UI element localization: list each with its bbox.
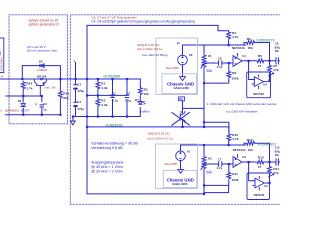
svg-text:C10: C10 (275, 146, 280, 150)
svg-text:50k: 50k (206, 170, 212, 174)
svg-text:R13: R13 (258, 155, 264, 159)
wire bias return lower (204, 164, 229, 193)
resistor R4 (227, 31, 231, 42)
lower channel (87, 127, 280, 194)
svg-text:Verstärkung 9.8 dB: Verstärkung 9.8 dB (91, 146, 123, 150)
cross-out X over Q (172, 112, 190, 125)
capacitor C9 (40, 105, 44, 107)
potentiometer X1 (201, 54, 206, 70)
capacitor C10 out (276, 158, 278, 165)
wire pot X2 bottom (203, 171, 205, 194)
svg-text:NE5534A: NE5534A (232, 46, 246, 50)
transistor Q7 (34, 79, 46, 96)
svg-text:V1: V1 (187, 150, 191, 154)
resistor R7 (268, 64, 272, 74)
svg-text:SMQJ3 0.25 1K): SMQJ3 0.25 1K) (148, 132, 170, 136)
op-amp U2 (252, 75, 267, 90)
svg-text:47: 47 (258, 64, 262, 68)
svg-text:R11: R11 (232, 172, 238, 176)
wire node e vertical C3 C4 (75, 63, 77, 117)
wire bias return y83.1 (204, 63, 229, 83)
svg-text:Rser=680: Rser=680 (166, 66, 179, 70)
resistor R10 (227, 133, 231, 142)
wire Q7 collector (43, 65, 45, 67)
svg-text:680: 680 (63, 96, 69, 100)
wire x1 low jog (204, 122, 229, 133)
chassis gnd box lower (156, 144, 198, 189)
op-amp U4 box (247, 173, 270, 200)
svg-text:max. 1W: max. 1W (44, 86, 55, 90)
subckt border box1 power supply (9, 15, 68, 124)
resistor R14 (268, 166, 272, 176)
svg-text:100k: 100k (232, 77, 239, 81)
svg-text:80 mA Laststrom max.: 80 mA Laststrom max. (27, 49, 58, 53)
svg-text:C4, C8 auf 820µF geändert (Fre: C4, C8 auf 820µF geändert (Frequenzgang … (91, 19, 195, 23)
wire supply rail top (1, 78, 141, 80)
svg-text:C6: C6 (218, 57, 222, 61)
svg-text:R5: R5 (247, 37, 251, 41)
svg-text:15k: 15k (248, 46, 254, 50)
junction dots top (21, 44, 270, 128)
svg-text:U3: U3 (242, 155, 246, 159)
wire R1 R2 divider (97, 79, 99, 117)
wire Qx stub (182, 108, 184, 127)
svg-text:47k: 47k (273, 68, 279, 72)
svg-text:15.002865: 15.002865 (103, 75, 120, 79)
svg-text:R16: R16 (63, 91, 69, 95)
svg-text:C2: C2 (112, 92, 116, 96)
transistor crossed Q input (180, 111, 185, 123)
resistor R2 (96, 98, 100, 107)
svg-text:D6: D6 (18, 99, 22, 103)
svg-text:47k: 47k (273, 171, 279, 175)
svg-text:470µ: 470µ (77, 107, 84, 111)
potentiometer X2 (201, 156, 206, 171)
wire R5 fb (244, 43, 270, 46)
svg-text:R6: R6 (258, 54, 262, 58)
svg-text:dun 0 100m 0 0.1µ: dun 0 100m 0 0.1µ (148, 136, 173, 140)
op-amp U1 (233, 53, 242, 67)
wire U3 to U4 (249, 162, 255, 181)
svg-text:2.7k: 2.7k (26, 87, 32, 91)
svg-text:BG: BG (275, 49, 279, 53)
svg-text:Q7: Q7 (40, 77, 44, 81)
svg-text:VE: VE (189, 53, 193, 57)
wire R12 fb (244, 143, 270, 145)
IN net flag (179, 97, 185, 101)
wire pot X2 top (203, 145, 205, 156)
capacitor C3 (73, 85, 77, 89)
subckt border box2 amplifier (70, 15, 281, 205)
chassis gnd inner box top (162, 74, 197, 94)
svg-text:470µ: 470µ (77, 89, 84, 93)
svg-text:1N4004: 1N4004 (37, 68, 48, 72)
svg-text:SABA 9080: SABA 9080 (172, 182, 188, 186)
resistor R5 (246, 41, 256, 45)
gnd flag rail (71, 121, 76, 125)
resistor R13 (256, 160, 264, 164)
svg-text:U2: U2 (263, 83, 267, 87)
svg-text:0.1µ: 0.1µ (125, 98, 131, 102)
resistor R12 (246, 141, 256, 145)
svg-text:Schalterverstärkung = 96 dB: Schalterverstärkung = 96 dB (91, 141, 138, 145)
voltage source V1 (176, 151, 186, 161)
capacitor C8 out (276, 57, 278, 64)
resistor R9 (227, 71, 231, 81)
wire C2 branch (112, 79, 114, 117)
wire gnd rail lower (87, 193, 204, 195)
op-amp U4 (252, 176, 267, 191)
svg-text:4.7k: 4.7k (232, 137, 238, 141)
chassis gnd box top (156, 38, 198, 95)
svg-text:4.9606291: 4.9606291 (106, 123, 123, 127)
svg-text:820µ: 820µ (275, 45, 280, 49)
svg-text:R9: R9 (232, 71, 236, 75)
wire supply top run to R4 (87, 25, 229, 30)
svg-text:R3: R3 (144, 87, 148, 91)
wire bias rail y126.9 (87, 117, 229, 127)
wire C7 input (205, 163, 233, 165)
wire V2 top (183, 45, 246, 77)
svg-text:C3: C3 (77, 83, 81, 87)
connector J1 left edge box (0, 38, 4, 73)
svg-text:4.7µ: 4.7µ (217, 166, 223, 170)
wire R4 bottom (228, 42, 230, 46)
resistor R6 (256, 59, 264, 63)
svg-text:R34: R34 (26, 82, 32, 86)
svg-text:1µ: 1µ (43, 108, 47, 112)
resistor R3 (138, 87, 142, 98)
svg-text:dun 0 100m 0 0.1µ: dun 0 100m 0 0.1µ (137, 47, 162, 51)
op-amp U2 box (247, 72, 271, 98)
svg-text:X1: X1 (208, 54, 212, 58)
gnd flag chassis lower (178, 169, 184, 173)
svg-text:820µ: 820µ (275, 149, 280, 153)
op-amp U3 (233, 154, 242, 168)
svg-text:U4: U4 (264, 184, 268, 188)
svg-text:C4: C4 (77, 100, 81, 104)
capacitor C7 (219, 161, 222, 167)
capacitor C6 (219, 60, 222, 66)
wire gnd stub (72, 117, 74, 122)
svg-text:Ausgangsimpedanz: Ausgangsimpedanz (91, 161, 124, 165)
svg-text:100k: 100k (232, 178, 239, 182)
resistor R1 (96, 81, 100, 90)
wire IN entry (183, 101, 204, 109)
wire R34 zener chain (22, 90, 24, 114)
LED D7 (138, 101, 145, 104)
wire U1 out (242, 60, 281, 62)
svg-text:D5: D5 (39, 59, 43, 63)
svg-text:6.8503927V: 6.8503927V (257, 38, 276, 42)
svg-text:@ 20 kHz = 2 Ohm: @ 20 kHz = 2 Ohm (91, 170, 123, 174)
wire U2 out diag (266, 73, 274, 82)
wire C5 branch (126, 79, 128, 117)
svg-text:U1: U1 (242, 54, 246, 58)
svg-text:1. GND darf nicht mit Chassis: 1. GND darf nicht mit Chassis GND verbun… (207, 102, 277, 106)
wire C6 input (205, 62, 233, 64)
wire U4 out diag (267, 174, 274, 183)
svg-text:Rser=680: Rser=680 (165, 162, 178, 166)
wire V1 top run (181, 145, 246, 169)
svg-text:Netz: Netz (0, 50, 2, 56)
svg-text:rot_GND KH-Verstärker: rot_GND KH-Verstärker (226, 110, 258, 114)
svg-text:C5: C5 (126, 92, 130, 96)
svg-text:.four 1kHz 10 50mg: .four 1kHz 10 50mg (141, 53, 168, 57)
chassis gnd inner box lower (163, 170, 197, 187)
svg-text:X2: X2 (208, 157, 212, 161)
capacitor C2 (110, 95, 114, 97)
svg-text:4.3k: 4.3k (101, 86, 107, 90)
svg-text:R12: R12 (247, 138, 253, 142)
svg-text:NE5532: NE5532 (253, 92, 264, 96)
voltage source V2 (178, 55, 188, 65)
wire emitter net y96 (6, 95, 42, 97)
wire R16 bottom (59, 100, 61, 114)
svg-text:0.1µ: 0.1µ (112, 99, 118, 103)
wire C9 branch (41, 96, 43, 115)
svg-text:@ 40 kHz = 1 Ohm: @ 40 kHz = 1 Ohm (91, 165, 123, 169)
svg-text:C9: C9 (43, 102, 47, 106)
resistor R11 (227, 172, 231, 182)
svg-text:BZX84B010: BZX84B010 (5, 108, 20, 112)
svg-text:D7: D7 (135, 98, 139, 102)
wire bottom rail box1 (6, 114, 61, 116)
wire R10 branch (228, 127, 230, 145)
resistor R34 (21, 81, 25, 91)
junction dots lower (203, 144, 271, 195)
svg-text:10k: 10k (144, 92, 150, 96)
svg-text:R1: R1 (101, 82, 105, 86)
wire R3 LED branch (139, 79, 141, 117)
svg-text:BZX79: BZX79 (21, 108, 29, 112)
svg-text:NE5534A: NE5534A (233, 148, 247, 152)
svg-text:C7: C7 (218, 158, 222, 162)
svg-text:47: 47 (258, 165, 262, 169)
svg-text:LedRed: LedRed (140, 109, 150, 113)
svg-text:4.7µ: 4.7µ (217, 65, 223, 69)
wire U1 fb vertical (269, 43, 271, 81)
capacitor C4 (73, 102, 77, 106)
wire D5 branch (22, 66, 60, 90)
wire U1 to U2 (249, 61, 255, 80)
svg-text:4.7k: 4.7k (232, 35, 238, 39)
svg-text:230V 50Hz: 230V 50Hz (0, 57, 3, 71)
svg-text:15k: 15k (248, 148, 254, 152)
resistor R16 (58, 90, 62, 100)
svg-text:C8: C8 (275, 42, 279, 46)
wire gnd rail y116.5 (73, 116, 140, 118)
wire vgnd y95.4 (87, 94, 127, 96)
wire pot X1 top (203, 45, 205, 54)
diode D5 (40, 64, 44, 68)
wire main vertical bus x87 (86, 25, 88, 194)
svg-text:4.3k: 4.3k (101, 103, 107, 107)
wire U3 fb vertical (269, 143, 271, 182)
wire pot X1 bottom (203, 70, 205, 127)
wire U3 out (242, 161, 281, 163)
svg-text:SABA 9080: SABA 9080 (174, 86, 190, 90)
svg-text:NE5532: NE5532 (254, 193, 265, 197)
svg-text:BG: BG (275, 153, 279, 157)
gnd flag chassis top (180, 77, 186, 81)
capacitor C5 (125, 95, 129, 97)
svg-text:50k: 50k (206, 69, 212, 73)
svg-text:.options plotwinsize=0: .options plotwinsize=0 (28, 22, 60, 26)
zener D6 (20, 104, 26, 108)
